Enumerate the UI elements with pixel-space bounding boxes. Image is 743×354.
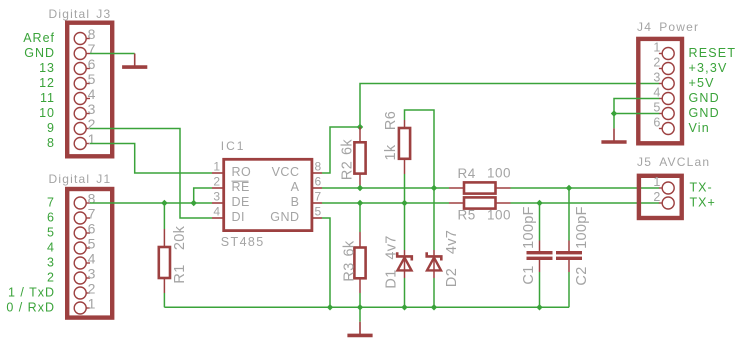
J4 net labels RESET +3,3V +5V GND GND Vin [689,46,737,135]
wire +5V rail from R2 top to J4 pin3 [360,84,659,128]
svg-text:J4: J4 [637,20,652,34]
svg-text:8: 8 [88,191,96,207]
wire ground bus bottom [164,306,569,308]
junction ground bus at C1 [536,304,542,310]
svg-text:1: 1 [653,41,660,55]
svg-text:4: 4 [88,86,96,102]
J3 net labels ARef GND 13 12 11 10 9 8 [23,31,55,150]
svg-text:D2: D2 [444,268,460,287]
svg-text:ST485: ST485 [221,235,265,249]
svg-text:20k: 20k [172,225,188,250]
wire net A from R4 to J5 pin1 TX- [511,187,660,189]
R2 name label [340,161,356,180]
svg-text:TX-: TX- [690,181,713,195]
svg-text:6k: 6k [340,139,356,155]
svg-text:+3,3V: +3,3V [689,61,728,75]
svg-text:3: 3 [653,71,660,85]
svg-text:GND: GND [689,106,720,120]
svg-text:GND: GND [24,46,55,60]
svg-text:RESET: RESET [689,46,737,60]
svg-text:DI: DI [232,210,246,224]
J3 pin numbers 8..1 [88,26,96,147]
connector J4 (Power header) [638,39,682,143]
wire branch DE to RE [194,188,212,203]
diode D1 zener 4v7 [397,203,412,307]
wire IC1 GND pin5 to ground bus [322,218,330,307]
svg-text:R5: R5 [458,208,476,223]
junction B at C1 [536,200,542,206]
R6 name label [383,111,399,130]
svg-text:R6: R6 [383,111,399,130]
svg-text:R2: R2 [340,161,356,180]
R4 value label 100 [487,165,511,180]
svg-text:6: 6 [653,116,660,130]
wire J4 pin5 GND join [614,113,659,115]
J5 title AVCLan [637,155,710,169]
svg-text:10: 10 [39,106,55,120]
svg-text:5: 5 [315,205,322,219]
svg-text:ARef: ARef [23,31,55,45]
svg-text:C2: C2 [574,266,590,285]
wire J4 pin4 GND to ground [614,99,659,129]
svg-text:J3: J3 [96,7,111,21]
svg-text:1: 1 [213,160,220,174]
svg-text:100pF: 100pF [521,206,537,249]
svg-text:3: 3 [47,256,55,270]
svg-text:+5V: +5V [689,76,715,90]
svg-text:A: A [291,180,300,194]
IC1 name label [221,139,246,153]
svg-text:2: 2 [47,271,55,285]
capacitor C1 100pF [527,203,553,307]
junction ground bus at IC1 GND [327,304,333,310]
junction A at R6 branch / D2 [431,185,437,191]
svg-text:3: 3 [213,190,220,204]
R5 name label [458,208,476,223]
resistor R3 6K [354,203,365,307]
wire J3 pin2 (9) to IC1 DI [90,129,212,219]
R1 value label 20K [172,225,188,250]
R2 value label 6K [340,139,356,155]
op-amp/IC U=IC1 ST485 box [212,159,322,230]
capacitor C2 100pF [556,188,582,307]
svg-text:100: 100 [487,208,511,223]
C2 name label [574,266,590,285]
ground near J4 [601,128,626,142]
wire J1 pin8 (7) to IC1 DE [90,202,212,204]
R3 name label [342,262,358,281]
junction on DE wire at R1 [161,200,167,206]
D1 value label 4v7 [384,235,400,259]
svg-text:J1: J1 [96,172,111,186]
svg-text:AVCLan: AVCLan [659,155,710,169]
svg-text:4: 4 [213,205,220,219]
junction A at C2 [566,185,572,191]
junction A at R2 bottom [357,185,363,191]
wire net B from R5 to J5 pin2 TX+ [511,202,660,204]
svg-text:6: 6 [88,221,96,237]
IC1 pin names RO RE DE DI [232,165,252,224]
svg-text:2: 2 [653,190,660,204]
wire J3 pin1 (8) to IC1 RO [90,144,212,174]
R3 value label 6K [342,240,358,256]
wire J3 pin7 GND to ground [90,53,135,55]
svg-text:1k: 1k [383,144,399,160]
svg-text:2: 2 [213,175,220,189]
C1 name label [521,265,537,284]
R1 name label [172,264,188,283]
svg-text:R1: R1 [172,264,188,283]
diode D2 zener 4v7 [427,188,442,307]
svg-text:IC1: IC1 [221,139,246,153]
connector J5 (AVCLan header) [639,176,682,218]
svg-text:100: 100 [487,165,511,180]
svg-text:1 / TxD: 1 / TxD [8,286,55,300]
svg-text:12: 12 [39,76,55,90]
svg-text:4: 4 [88,251,96,267]
junction VCC/R2 top [357,124,363,130]
svg-text:7: 7 [88,206,96,222]
svg-text:Power: Power [659,20,699,34]
R5 value label 100 [487,208,511,223]
wire IC1 VCC pin8 to +5V rail [322,127,360,173]
J4 pin numbers 1..6 [653,41,660,130]
resistor R2 6K [354,127,365,188]
svg-text:D1: D1 [384,269,400,288]
junction GND pins of J4 [611,110,617,116]
junction ground bus at D1 [401,304,407,310]
svg-text:B: B [291,195,300,209]
svg-text:RE: RE [232,180,250,194]
svg-text:7: 7 [315,190,322,204]
svg-text:2: 2 [653,56,660,70]
IC1 pin numbers right 8 6 7 5 [315,160,322,219]
R4 name label [458,166,476,181]
wire ground bus drop to ground symbol [359,307,361,322]
svg-text:TX+: TX+ [690,196,716,210]
junction on DE wire at RE branch [191,200,197,206]
J3 title Digital J3 [49,7,112,21]
svg-text:5: 5 [653,101,660,115]
svg-text:3: 3 [88,101,96,117]
svg-text:9: 9 [47,121,55,135]
J4 title Power [637,20,699,34]
J1 pin numbers 8..1 [88,191,96,312]
svg-text:100pF: 100pF [574,206,590,249]
svg-text:C1: C1 [521,265,537,284]
svg-text:5: 5 [88,236,96,252]
svg-text:7: 7 [47,196,55,210]
svg-text:2: 2 [88,281,96,297]
resistor R5 100 [449,197,511,208]
IC1 pin numbers left 1 2 3 4 [213,160,220,219]
IC1 value label ST485 [221,235,265,249]
junction B at R3 top [357,200,363,206]
ground at bottom center [347,322,372,336]
svg-text:R4: R4 [458,166,476,181]
R6 value label 1k [383,144,399,160]
wire net B from IC1 pin7 to R5 [322,202,449,204]
svg-text:GND: GND [689,91,720,105]
svg-text:Digital: Digital [49,172,91,186]
J1 title Digital J1 [49,172,112,186]
J5 net labels TX- TX+ [690,181,716,210]
C2 value label 100pF [574,206,590,249]
svg-text:Vin: Vin [689,121,710,135]
J5 pin numbers 1 2 [653,175,660,204]
svg-text:6: 6 [88,56,96,72]
svg-text:1: 1 [653,175,660,189]
svg-text:4: 4 [653,86,660,100]
C1 value label 100pF [521,206,537,249]
junction ground bus at D2 [431,304,437,310]
svg-text:DE: DE [232,195,250,209]
svg-text:6: 6 [315,175,322,189]
resistor R6 1k between A and B [399,110,434,203]
svg-text:7: 7 [88,41,96,57]
svg-text:6k: 6k [342,240,358,256]
svg-text:1: 1 [88,131,96,147]
junction B at R6 bottom / D1 [401,200,407,206]
svg-text:J5: J5 [637,155,652,169]
svg-text:5: 5 [88,71,96,87]
svg-text:8: 8 [315,160,322,174]
svg-text:3: 3 [88,266,96,282]
svg-text:13: 13 [39,61,55,75]
IC1 pin names VCC A B GND [270,165,299,224]
svg-text:1: 1 [88,296,96,312]
connector J1 (Digital header) [67,189,112,318]
J1 net labels 7..0/RxD [6,196,55,315]
D2 name label [444,268,460,287]
svg-text:0 / RxD: 0 / RxD [6,301,55,315]
resistor R4 100 [449,182,511,193]
svg-text:8: 8 [47,136,55,150]
svg-text:4v7: 4v7 [444,230,460,254]
resistor R1 20K [159,203,170,307]
svg-text:RO: RO [232,165,252,179]
svg-text:VCC: VCC [272,165,300,179]
svg-text:4v7: 4v7 [384,235,400,259]
svg-text:GND: GND [270,210,299,224]
svg-text:Digital: Digital [49,7,91,21]
svg-text:4: 4 [47,241,55,255]
svg-text:2: 2 [88,116,96,132]
junction ground bus at R3/ground [357,304,363,310]
ground near J3 [122,54,147,68]
connector J3 (Digital header) [67,23,112,157]
svg-text:6: 6 [47,211,55,225]
svg-text:R3: R3 [342,262,358,281]
D2 value label 4v7 [444,230,460,254]
svg-text:5: 5 [47,226,55,240]
svg-text:8: 8 [88,26,96,42]
D1 name label [384,269,400,288]
svg-text:11: 11 [40,91,55,105]
wire net A from IC1 pin6 to R4 [322,187,449,189]
